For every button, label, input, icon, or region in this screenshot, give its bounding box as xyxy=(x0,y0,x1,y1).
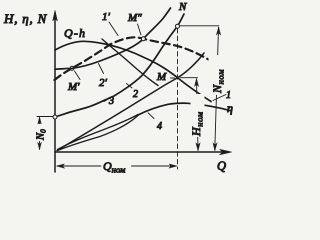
svg-text:Q-h: Q-h xyxy=(64,26,86,40)
svg-text:M′: M′ xyxy=(67,81,80,93)
Qnom vertical dashed line xyxy=(177,29,179,170)
svg-text:2′: 2′ xyxy=(99,77,108,89)
horizontal line from M to Hnom arrow xyxy=(181,77,198,79)
curve 2' (through M' and M'') xyxy=(55,8,171,69)
node N0 circle on y-axis xyxy=(53,115,57,119)
y-axis xyxy=(53,11,58,173)
eta curve main xyxy=(138,103,231,115)
svg-text:M: M xyxy=(156,71,167,83)
svg-text:1: 1 xyxy=(226,90,231,101)
N0 label xyxy=(34,124,48,141)
svg-text:H, η, N: H, η, N xyxy=(3,11,48,26)
svg-text:2: 2 xyxy=(133,89,138,100)
svg-text:1′: 1′ xyxy=(102,11,111,23)
node M' circle xyxy=(70,66,74,70)
horizontal line from N circle to Nnom arrow xyxy=(180,25,219,27)
eta curve leaf upper xyxy=(58,115,139,150)
eta curve leaf lower xyxy=(58,116,139,151)
Qnom dimension line xyxy=(57,164,178,168)
x-axis xyxy=(55,149,232,155)
svg-text:η: η xyxy=(227,101,233,115)
system curve Q-h through M xyxy=(57,53,204,151)
pointer to label 1' xyxy=(109,22,118,36)
curve B (descending, crosses middle) xyxy=(102,39,158,86)
pointer 3 xyxy=(104,99,109,102)
pointer M' xyxy=(75,71,81,80)
pointer 2 xyxy=(127,84,133,89)
svg-text:M″: M″ xyxy=(127,12,142,24)
svg-text:4: 4 xyxy=(157,121,162,132)
dashed curve 1' xyxy=(55,37,214,80)
node M crossing xyxy=(171,77,175,79)
pointer to label 1 xyxy=(213,95,226,101)
Nnom dimension line xyxy=(213,27,221,151)
svg-text:N: N xyxy=(178,1,187,13)
Nnom label xyxy=(209,55,226,95)
pointer M'' xyxy=(138,24,142,35)
Hnom label xyxy=(189,94,205,137)
N0 dimension line xyxy=(38,117,42,150)
pointer 2' xyxy=(99,64,104,74)
pointer 4 xyxy=(148,113,154,119)
node N circle (on Qnom line) xyxy=(176,24,180,28)
node M'' circle xyxy=(141,37,145,41)
curve 1 (pump H-Q, through M) xyxy=(55,41,211,101)
svg-text:Q: Q xyxy=(217,159,226,173)
tick from N0 circle to the left xyxy=(37,116,53,118)
Hnom dimension line xyxy=(194,79,200,151)
svg-text:3: 3 xyxy=(108,96,114,107)
curve N (power curve, labels 3, 2, N) xyxy=(55,14,184,117)
